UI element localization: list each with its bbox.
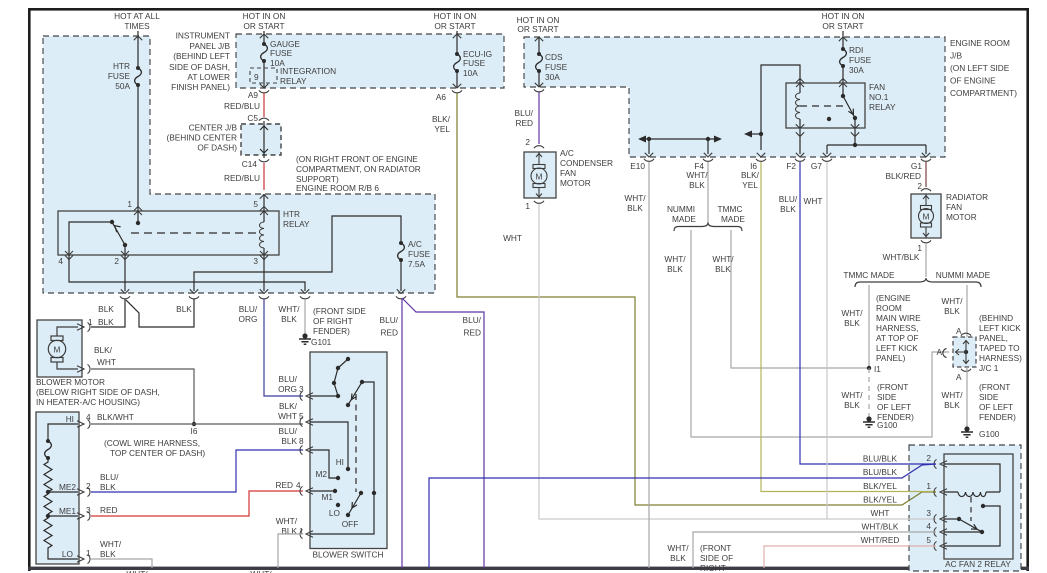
svg-text:AT TOP OF: AT TOP OF — [876, 333, 919, 343]
wire A/C fuse to exit — [400, 260, 402, 291]
switch AC fan 2 relay arm — [959, 519, 982, 532]
svg-text:NUMMI MADE: NUMMI MADE — [936, 270, 991, 280]
label TMMC MADE / NUMMI MADE — [843, 270, 990, 280]
ground G101 — [299, 333, 311, 344]
svg-text:BLOWER MOTOR: BLOWER MOTOR — [36, 377, 105, 387]
motor blower motor box — [37, 320, 82, 377]
svg-text:FUSE: FUSE — [545, 62, 568, 72]
svg-text:LO: LO — [329, 508, 341, 518]
svg-text:M: M — [923, 212, 930, 222]
svg-text:50A: 50A — [115, 81, 130, 91]
wire AC fan 2 relay pin 5 internal — [981, 504, 985, 508]
wire HTR fuse to HTR relay pin 1 — [137, 85, 139, 211]
svg-text:WHT/: WHT/ — [841, 308, 863, 318]
svg-text:OF LEFT: OF LEFT — [877, 402, 911, 412]
wire F4 drop — [707, 139, 709, 154]
wire F2 drop from coil — [799, 128, 801, 154]
resistor element upper — [44, 458, 52, 492]
svg-text:BLK: BLK — [844, 400, 860, 410]
fuse RDI FUSE 30A — [840, 47, 847, 68]
svg-text:WHT/: WHT/ — [941, 390, 963, 400]
svg-text:BLOWER SWITCH: BLOWER SWITCH — [313, 550, 384, 560]
pin 4 AC fan 2 relay — [934, 527, 947, 536]
svg-text:G1: G1 — [911, 161, 922, 171]
svg-text:BLK: BLK — [281, 314, 297, 324]
wire resistor internal top — [48, 424, 78, 441]
resistor element middle — [44, 492, 52, 514]
junction block J/C 1 — [953, 337, 976, 367]
svg-text:BLK: BLK — [176, 304, 192, 314]
svg-text:ENGINE ROOM: ENGINE ROOM — [950, 38, 1010, 48]
pin 1 condenser fan motor — [534, 201, 544, 204]
svg-text:1: 1 — [127, 199, 132, 209]
wire CDS fuse to connector — [538, 71, 540, 87]
svg-text:BLU/: BLU/ — [779, 194, 798, 204]
wire WHT G7 to AC fan 2 relay pin 3 — [826, 162, 828, 519]
wire BLK/WHT blower motor pin 2 to I6 — [91, 369, 194, 424]
svg-text:FAN: FAN — [560, 168, 576, 178]
wire AC fan 2 relay pin 2 internal — [944, 464, 1000, 492]
pin HI blower resistor — [77, 419, 90, 428]
svg-text:A/C: A/C — [408, 239, 422, 249]
page frame left — [28, 8, 31, 571]
svg-text:RELAY: RELAY — [869, 102, 896, 112]
svg-text:G7: G7 — [811, 161, 822, 171]
svg-text:2: 2 — [926, 453, 931, 463]
svg-text:OFF: OFF — [342, 519, 359, 529]
svg-text:BLK: BLK — [715, 264, 731, 274]
wire ECU-IG feed — [456, 31, 458, 54]
wire BLK exit to blower motor pin 1 — [91, 299, 125, 327]
brace F4 split — [674, 223, 742, 232]
svg-text:BLK: BLK — [670, 553, 686, 563]
relay HTR RELAY box — [58, 211, 279, 255]
resistor element lower — [44, 516, 78, 559]
wire BLU/BLK F2 to AC fan 2 relay pin 2 — [800, 162, 936, 464]
pin 4 blower switch — [300, 486, 313, 495]
wire WHT/BLK I1 to G100 dashed — [868, 368, 870, 418]
svg-text:FUSE: FUSE — [463, 58, 486, 68]
fuse GAUGE FUSE 10A — [261, 42, 268, 63]
wire R/B6 edge to HTR relay pin 5 — [263, 194, 265, 211]
svg-text:5: 5 — [253, 199, 258, 209]
page frame right — [1026, 8, 1029, 571]
svg-text:ROOM: ROOM — [876, 303, 902, 313]
svg-text:(FRONT SIDE: (FRONT SIDE — [313, 306, 366, 316]
wire blower switch pin 5 internal — [310, 422, 348, 469]
svg-text:AT LOWER: AT LOWER — [187, 72, 230, 82]
svg-text:E10: E10 — [630, 161, 645, 171]
svg-text:1: 1 — [86, 548, 91, 558]
svg-text:BLK: BLK — [667, 264, 683, 274]
svg-text:FUSE: FUSE — [270, 48, 293, 58]
wire blower switch pin 8 internal — [310, 450, 338, 478]
coil fan no.1 relay — [799, 83, 801, 128]
svg-text:BLK/: BLK/ — [432, 114, 451, 124]
svg-text:OR START: OR START — [243, 21, 284, 31]
wire HTR fuse feed entering box — [137, 31, 139, 68]
svg-text:M2: M2 — [315, 469, 327, 479]
svg-text:(BEHIND LEFT: (BEHIND LEFT — [173, 51, 230, 61]
svg-text:PANEL J/B: PANEL J/B — [189, 41, 230, 51]
connector G7 — [822, 159, 832, 162]
node HOT IN ON OR START (CDS) — [517, 15, 560, 34]
svg-text:BLU/: BLU/ — [463, 315, 482, 325]
wire BLK/YEL I6 to AC fan 2 relay pin 1 — [761, 162, 936, 492]
svg-text:WHT/: WHT/ — [100, 539, 122, 549]
svg-text:BLU/: BLU/ — [100, 472, 119, 482]
wire A/C fuse feed from exit — [194, 216, 401, 291]
wire WHT/BLK radiator fan to brace — [925, 243, 927, 277]
svg-text:FENDER): FENDER) — [877, 412, 914, 422]
pin LO blower resistor — [77, 554, 90, 563]
svg-text:4: 4 — [926, 521, 931, 531]
svg-text:G101: G101 — [311, 337, 332, 347]
wire WHT/BLK TMMC branch to I1 — [731, 230, 869, 368]
wire RED/BLU A9 to C5 — [263, 93, 265, 117]
label instrument panel J/B — [169, 31, 230, 93]
svg-text:RED: RED — [515, 118, 533, 128]
svg-text:30A: 30A — [545, 72, 560, 82]
svg-text:FENDER): FENDER) — [313, 326, 350, 336]
svg-text:OR START: OR START — [517, 24, 558, 34]
svg-text:OR START: OR START — [434, 21, 475, 31]
pin ME2 blower resistor — [77, 487, 90, 496]
svg-text:BLK: BLK — [944, 400, 960, 410]
svg-text:BLK: BLK — [780, 204, 796, 214]
fuse CDS FUSE 30A — [536, 52, 543, 73]
svg-text:4: 4 — [58, 256, 63, 266]
svg-text:A: A — [956, 326, 962, 336]
node HOT IN ON OR START (RDI) — [822, 11, 865, 31]
svg-text:OF ENGINE: OF ENGINE — [950, 76, 996, 86]
svg-text:RELAY: RELAY — [280, 76, 307, 86]
svg-text:WHT/: WHT/ — [686, 170, 708, 180]
coil AC fan 2 relay — [944, 491, 1000, 493]
relay FAN NO.1 RELAY box — [786, 83, 865, 128]
connector I6 — [756, 159, 766, 162]
label cowl wire harness — [104, 438, 205, 458]
wire BLK link between exits — [126, 299, 194, 327]
svg-text:BLK/: BLK/ — [741, 170, 760, 180]
connector C14 — [259, 159, 269, 162]
node I6 riser junction w arrow — [759, 132, 763, 136]
label NUMMI MADE / TMMC MADE — [667, 204, 746, 224]
wire WHT/BLK J/C 1 to G100 right — [966, 367, 968, 428]
relay 9 INTEGRATION RELAY — [250, 68, 277, 83]
svg-text:PANEL,: PANEL, — [979, 333, 1008, 343]
svg-text:WHT: WHT — [871, 508, 890, 518]
wire WHT/BLK exit to G101 — [304, 299, 306, 335]
wire BLK/RED G1 to radiator fan motor — [925, 162, 927, 187]
svg-text:(BELOW RIGHT SIDE OF DASH,: (BELOW RIGHT SIDE OF DASH, — [36, 387, 160, 397]
svg-text:2: 2 — [917, 181, 922, 191]
svg-text:FENDER): FENDER) — [979, 412, 1016, 422]
svg-text:IN HEATER-A/C HOUSING): IN HEATER-A/C HOUSING) — [36, 397, 140, 407]
svg-text:BLK/WHT: BLK/WHT — [97, 412, 134, 422]
wire through center J/B — [263, 121, 265, 158]
svg-text:MOTOR: MOTOR — [560, 178, 591, 188]
brace radiator fan split — [855, 278, 981, 287]
node LO contact — [336, 503, 340, 507]
fuse ECU-IG FUSE 10A — [454, 52, 461, 73]
svg-text:7.5A: 7.5A — [408, 259, 426, 269]
svg-text:LO: LO — [62, 549, 74, 559]
svg-text:BLK: BLK — [98, 304, 114, 314]
svg-text:3: 3 — [253, 256, 258, 266]
svg-text:(FRONT: (FRONT — [979, 382, 1010, 392]
svg-text:HI: HI — [66, 414, 74, 424]
svg-text:2: 2 — [86, 481, 91, 491]
svg-text:HARNESS): HARNESS) — [979, 353, 1022, 363]
svg-text:BLU/BLK: BLU/BLK — [863, 467, 898, 477]
wire AC fan 2 relay pin 3 internal — [944, 518, 959, 520]
svg-text:TOP CENTER OF DASH): TOP CENTER OF DASH) — [110, 448, 205, 458]
node HI contact — [346, 467, 350, 471]
svg-text:WHT: WHT — [97, 357, 116, 367]
svg-text:BLU/: BLU/ — [239, 304, 258, 314]
svg-text:WHT/: WHT/ — [278, 304, 300, 314]
svg-text:2: 2 — [525, 137, 530, 147]
svg-text:TMMC: TMMC — [718, 204, 743, 214]
wire BLK/YEL A6 to AC fan 2 relay pin 1 — [457, 93, 936, 505]
svg-text:RED: RED — [100, 505, 118, 515]
svg-text:1: 1 — [525, 201, 530, 211]
svg-text:OF RIGHT: OF RIGHT — [313, 316, 353, 326]
svg-text:5: 5 — [926, 535, 931, 545]
svg-text:TMMC MADE: TMMC MADE — [843, 270, 895, 280]
fuse A/C FUSE 7.5A — [398, 241, 405, 262]
instrument panel J/B dashed box — [236, 34, 504, 88]
node M1 contact — [333, 489, 337, 493]
switch blower switch lower arm — [359, 491, 363, 495]
svg-text:BLU/BLK: BLU/BLK — [863, 454, 898, 464]
pin 1 radiator fan motor — [921, 240, 931, 243]
label J/C 1 — [979, 313, 1022, 373]
svg-text:FUSE: FUSE — [849, 55, 872, 65]
svg-text:BLK/: BLK/ — [279, 401, 298, 411]
pin 5 blower switch — [300, 417, 313, 426]
wire gauge fuse to A9 — [263, 61, 265, 88]
svg-text:BLK: BLK — [944, 306, 960, 316]
wire HTR relay pin 4 to exit — [69, 255, 305, 291]
AC fan 2 relay dashed region — [909, 445, 1021, 571]
svg-text:WHT/: WHT/ — [941, 296, 963, 306]
svg-text:WHT: WHT — [278, 411, 297, 421]
svg-text:WHT/RED: WHT/RED — [861, 535, 900, 545]
svg-text:5: 5 — [299, 411, 304, 421]
svg-text:WHT: WHT — [503, 233, 522, 243]
page frame bottom — [28, 567, 1029, 570]
label blower motor — [36, 377, 160, 407]
wire BLU/RED exit branch right — [402, 298, 484, 568]
pin 3 blower switch — [300, 391, 313, 400]
wire WHT condenser fan to AC fan 2 relay pin 3 — [539, 204, 936, 519]
svg-text:RED/BLU: RED/BLU — [224, 173, 260, 183]
svg-text:M: M — [54, 345, 61, 355]
wire WHT/BLK TMMC branch to I1 and G100 — [868, 285, 870, 368]
svg-text:1: 1 — [926, 481, 931, 491]
wire HTR relay pin 2 to exit — [124, 255, 126, 291]
svg-text:PANEL): PANEL) — [876, 353, 906, 363]
wire AC fan 2 relay pin 4 internal — [944, 531, 982, 533]
connector E10 — [644, 159, 654, 162]
motor radiator fan motor — [911, 194, 941, 238]
pin 2 AC fan 2 relay — [934, 459, 947, 468]
svg-text:BLK/: BLK/ — [94, 345, 113, 355]
svg-text:BLU/: BLU/ — [279, 426, 298, 436]
svg-text:NO.1: NO.1 — [869, 92, 889, 102]
svg-text:SIDE: SIDE — [877, 392, 897, 402]
pin ME1 blower resistor — [77, 511, 90, 520]
svg-text:INTEGRATION: INTEGRATION — [280, 66, 336, 76]
wire E10-F4 link with arrows — [642, 138, 718, 140]
node M2 contact — [336, 476, 340, 480]
svg-text:A: A — [956, 372, 962, 382]
svg-text:BLK/RED: BLK/RED — [885, 171, 921, 181]
svg-text:FAN: FAN — [946, 202, 962, 212]
wire WHT/BLK into pin 4 — [693, 532, 936, 568]
svg-text:TIMES: TIMES — [124, 21, 150, 31]
wire BLU/RED exit branch down — [401, 299, 403, 568]
svg-text:COMPARTMENT, ON RADIATOR: COMPARTMENT, ON RADIATOR — [296, 164, 421, 174]
wire RDI feed — [842, 31, 844, 49]
svg-text:C5: C5 — [247, 113, 258, 123]
svg-text:BLK: BLK — [98, 317, 114, 327]
node HOT IN ON OR START (gauge fuse) — [243, 11, 286, 31]
svg-text:(ON LEFT SIDE: (ON LEFT SIDE — [950, 63, 1010, 73]
svg-text:A: A — [936, 347, 942, 357]
svg-text:9: 9 — [254, 72, 259, 82]
svg-text:WHT/: WHT/ — [667, 543, 689, 553]
svg-text:HOT IN ON: HOT IN ON — [243, 11, 286, 21]
svg-text:SIDE OF: SIDE OF — [700, 553, 733, 563]
svg-text:J/C 1: J/C 1 — [979, 363, 999, 373]
svg-text:3: 3 — [299, 384, 304, 394]
svg-text:(BEHIND: (BEHIND — [979, 313, 1013, 323]
connector A6 — [452, 90, 462, 93]
label engine room main wire harness — [876, 293, 921, 363]
svg-text:HTR: HTR — [283, 209, 300, 219]
wire WHT/RED into pin 5 — [764, 546, 936, 568]
wire BLU/BLK ME2 to blower switch pin 8 — [91, 450, 303, 492]
engine room J/B dashed region — [524, 37, 945, 157]
svg-text:BLK: BLK — [100, 549, 116, 559]
pin 1 blower switch — [300, 529, 313, 538]
svg-text:MADE: MADE — [672, 214, 696, 224]
wire RED/BLU C14 to engine room R/B 6 — [263, 163, 265, 190]
svg-text:I1: I1 — [874, 364, 881, 374]
svg-text:WHT: WHT — [804, 196, 823, 206]
connector G1 — [921, 159, 931, 162]
svg-text:BLU/: BLU/ — [279, 374, 298, 384]
svg-text:RADIATOR: RADIATOR — [946, 192, 988, 202]
svg-text:(COWL WIRE HARNESS,: (COWL WIRE HARNESS, — [104, 438, 200, 448]
svg-text:CONDENSER: CONDENSER — [560, 158, 613, 168]
svg-text:ENGINE ROOM R/B 6: ENGINE ROOM R/B 6 — [296, 183, 379, 193]
svg-text:(ON RIGHT FRONT OF ENGINE: (ON RIGHT FRONT OF ENGINE — [296, 154, 418, 164]
svg-text:3: 3 — [926, 508, 931, 518]
svg-text:MADE: MADE — [721, 214, 745, 224]
wire blower switch pin 1 internal — [310, 493, 374, 534]
svg-text:RIGHT: RIGHT — [700, 563, 726, 573]
wire BLU/ORG exit to blower switch pin 3 — [264, 299, 303, 396]
wire WHT/BLK E10 down off page — [648, 162, 650, 568]
svg-text:8: 8 — [299, 436, 304, 446]
svg-text:LEFT KICK: LEFT KICK — [979, 323, 1021, 333]
svg-text:WHT/: WHT/ — [841, 390, 863, 400]
node ME2 tap — [46, 490, 50, 494]
svg-text:1: 1 — [88, 317, 93, 327]
svg-text:J/B: J/B — [950, 51, 962, 61]
svg-text:CENTER J/B: CENTER J/B — [189, 123, 238, 133]
svg-text:HOT AT ALL: HOT AT ALL — [114, 11, 160, 21]
svg-text:BLU/: BLU/ — [380, 315, 399, 325]
svg-text:NUMMI: NUMMI — [667, 204, 695, 214]
engine room R/B 6 + HTR fuse feeder region (left dashed box) — [43, 36, 435, 293]
wire gauge fuse feed — [263, 31, 265, 44]
svg-text:C14: C14 — [242, 159, 258, 169]
connector F4 — [703, 159, 713, 162]
svg-text:LEFT KICK: LEFT KICK — [876, 343, 918, 353]
wire WHT/BLK blower switch pin 1 down — [278, 534, 303, 568]
connector F2 — [795, 159, 805, 162]
svg-text:HOT IN ON: HOT IN ON — [434, 11, 477, 21]
svg-text:MAIN WIRE: MAIN WIRE — [876, 313, 921, 323]
wire HTR relay pin 4 internal — [69, 222, 112, 255]
svg-text:WHT/: WHT/ — [712, 254, 734, 264]
svg-text:BLK: BLK — [844, 318, 860, 328]
svg-text:BLK: BLK — [100, 482, 116, 492]
svg-text:BLK/YEL: BLK/YEL — [863, 495, 897, 505]
node HOT IN ON OR START (ECU-IG) — [434, 11, 477, 31]
svg-text:(FRONT: (FRONT — [700, 543, 731, 553]
label center J/B — [166, 123, 237, 153]
ground G100 right — [961, 426, 973, 437]
wire WHT/BLK F4 to brace — [707, 162, 709, 223]
page frame top — [28, 8, 1029, 11]
svg-text:4: 4 — [296, 480, 301, 490]
svg-text:SIDE OF DASH,: SIDE OF DASH, — [169, 62, 230, 72]
svg-text:(FRONT: (FRONT — [877, 382, 908, 392]
svg-text:HTR: HTR — [113, 61, 130, 71]
svg-text:WHT/: WHT/ — [276, 516, 298, 526]
svg-text:BLK: BLK — [627, 203, 643, 213]
coil HTR relay — [263, 211, 265, 255]
svg-text:COMPARTMENT): COMPARTMENT) — [950, 88, 1017, 98]
svg-text:M: M — [536, 172, 543, 182]
connector C5 — [259, 118, 269, 121]
wire RDI fuse to fan no.1 relay — [842, 66, 844, 96]
svg-text:WHT/BLK: WHT/BLK — [862, 522, 899, 532]
svg-text:WHT/: WHT/ — [250, 569, 272, 573]
wire fan relay output to G7 G1 — [827, 128, 926, 154]
pin 8 blower switch — [300, 445, 313, 454]
wire BLK/WHT resistor HI to blower switch pin 5 — [91, 423, 303, 425]
svg-text:SIDE: SIDE — [979, 392, 999, 402]
svg-text:3: 3 — [86, 505, 91, 515]
wire blower switch pin 4 internal — [310, 490, 335, 492]
svg-text:A/C: A/C — [560, 148, 574, 158]
svg-text:BLK/YEL: BLK/YEL — [863, 481, 897, 491]
pin 1 blower motor — [77, 322, 90, 331]
svg-text:FINISH PANEL): FINISH PANEL) — [171, 82, 230, 92]
pin 2 blower motor — [77, 364, 90, 373]
wire BLU/RED CDS to condenser fan pin 2 — [538, 92, 540, 144]
svg-text:A6: A6 — [436, 92, 447, 102]
svg-text:FUSE: FUSE — [108, 71, 131, 81]
wire BLU/BLK long from bottom left — [429, 464, 936, 568]
